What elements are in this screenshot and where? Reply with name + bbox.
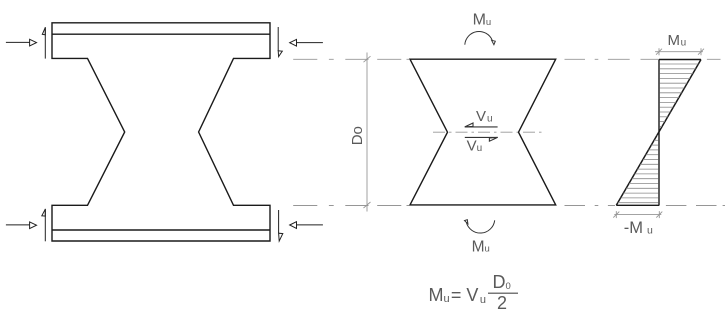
moment diagram diagonal — [616, 60, 701, 206]
force arrow top-left (horizontal) — [6, 39, 37, 46]
Do dimension line — [364, 53, 371, 212]
svg-text:Do: Do — [349, 126, 366, 145]
panel outline (middle figure) — [410, 59, 556, 205]
Vu arrow lower (pointing right) — [465, 137, 498, 141]
svg-text:Mu= Vu: Mu= Vu — [429, 285, 486, 306]
force arrow bottom-left (horizontal) — [6, 222, 37, 229]
moment diagram bottom edge — [616, 204, 659, 206]
bottom slab inner line — [52, 229, 270, 231]
force arrow bottom-right (horizontal) — [290, 222, 323, 229]
Vu arrow upper (pointing left) — [465, 123, 498, 127]
shear half-arrow top-left (vertical up) — [42, 27, 45, 58]
wall pier outline (left figure) — [52, 23, 270, 241]
equation Mu = Vu D0/2 — [429, 272, 511, 313]
moment diagram top edge — [659, 59, 701, 61]
moment diagram axis (right figure) — [658, 60, 660, 206]
Mu dimension line top — [655, 48, 704, 55]
shear half-arrow bottom-left (vertical up) — [42, 209, 46, 242]
shear half-arrow top-right (vertical down) — [278, 27, 282, 57]
-Mu dimension line bottom — [613, 211, 662, 218]
mid centerline through panel (dash-dot) — [433, 131, 544, 133]
moment arc bottom (clockwise) — [465, 220, 495, 233]
hatching lower triangle — [618, 136, 659, 203]
hatching upper triangle — [660, 64, 699, 126]
top slab inner line — [52, 33, 270, 35]
top centerline (dash-dot) — [293, 58, 720, 60]
shear half-arrow bottom-right (vertical down) — [279, 210, 283, 241]
moment arc top (clockwise) — [465, 31, 496, 44]
svg-text:2: 2 — [497, 293, 507, 313]
bottom centerline (dash-dot) — [293, 205, 725, 207]
force arrow top-right (horizontal) — [290, 39, 323, 46]
fraction bar — [488, 292, 518, 294]
